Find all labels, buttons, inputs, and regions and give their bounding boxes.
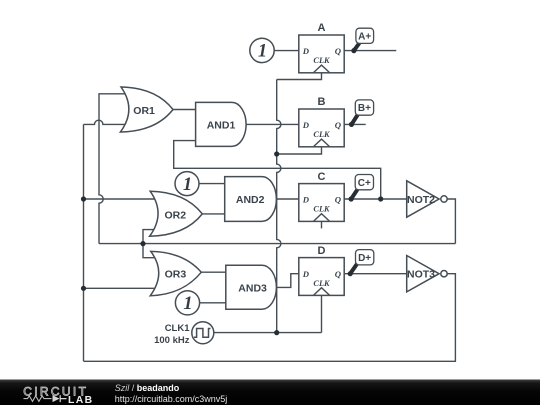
flag A+ tail <box>354 42 361 51</box>
svg-text:CLK: CLK <box>313 130 330 139</box>
svg-text:Q: Q <box>335 194 342 204</box>
wire AND2 output to C D-input <box>276 198 299 200</box>
svg-text:http://circuitlab.com/c3wnv5j: http://circuitlab.com/c3wnv5j <box>115 394 228 404</box>
wire NOT3 output loop right down and along bottom <box>84 274 456 362</box>
flip-flop D box <box>299 258 344 296</box>
node junction C flag <box>349 196 354 201</box>
svg-text:OR3: OR3 <box>165 269 187 281</box>
wire node1 to AND2 top input <box>199 183 225 185</box>
svg-text:A: A <box>318 22 326 34</box>
node 1 bubble at AND3 input <box>175 291 199 315</box>
logo diode <box>53 395 60 402</box>
wire NOT2 feedback horizontal <box>99 243 455 245</box>
svg-text:C+: C+ <box>358 178 371 189</box>
svg-text:CLK1: CLK1 <box>165 323 191 334</box>
flag A+ box <box>356 28 374 43</box>
svg-text:C: C <box>318 171 326 183</box>
svg-text:CLK: CLK <box>313 56 330 65</box>
svg-text:AND3: AND3 <box>238 283 267 295</box>
wire left vertical feedback line <box>83 124 85 361</box>
node 1 bubble at A input <box>250 38 274 62</box>
clock edge triangle A <box>313 65 329 73</box>
svg-text:LAB: LAB <box>68 395 94 405</box>
wire D Q-output to NOT3 input <box>344 273 407 275</box>
flip-flop A box <box>299 35 344 73</box>
svg-text:D: D <box>318 245 326 257</box>
flip-flop B box <box>299 109 344 147</box>
svg-text:AND1: AND1 <box>207 120 236 132</box>
node junction OR2 top tap <box>81 196 86 201</box>
svg-text:D+: D+ <box>358 253 371 264</box>
wire node1 to AND3 lower input <box>200 302 226 304</box>
wire AND1 output to B D-input <box>246 123 299 125</box>
wire OR2 output to AND2 lower input <box>202 213 224 215</box>
or-gate OR3 <box>150 251 201 295</box>
clock edge triangle D <box>313 288 329 296</box>
svg-text:D: D <box>302 269 310 279</box>
clock waveform glyph in CLK1 <box>194 329 211 338</box>
svg-text:CLK: CLK <box>313 279 330 288</box>
or-gate OR1 <box>120 87 173 132</box>
wire D CLK down <box>321 295 323 332</box>
wire C Q feedback to AND1 lower input <box>174 141 381 199</box>
svg-text:D: D <box>302 46 310 56</box>
svg-text:1: 1 <box>258 42 267 62</box>
wire NOT2 output loop right and down <box>447 199 455 244</box>
wire A CLK to bus top <box>277 73 322 80</box>
node junction C feedback <box>378 196 383 201</box>
node junction D flag <box>348 271 353 276</box>
svg-text:B+: B+ <box>358 103 371 114</box>
node junction NOT2 loop taps <box>140 241 145 246</box>
not-gate NOT3 triangle <box>407 256 439 292</box>
logo resistor zigzag <box>24 396 52 402</box>
node junction B flag <box>349 122 354 127</box>
node junction A flag <box>351 48 356 53</box>
svg-text:B: B <box>318 96 326 108</box>
flag C+ tail <box>351 188 358 199</box>
not-gate NOT2 bubble <box>441 196 447 202</box>
wire B Q-output <box>344 123 366 125</box>
svg-text:CLK: CLK <box>313 204 330 213</box>
wire OR1 output to AND1 top input <box>173 109 196 111</box>
wire clock bus vertical with hops <box>277 80 281 333</box>
node junction OR3 bottom tap <box>81 286 86 291</box>
wire OR1 lower input with hop over vertical line <box>84 120 129 124</box>
and-gate AND3 <box>226 265 277 309</box>
flag B+ box <box>355 100 373 115</box>
flag C+ box <box>355 175 373 190</box>
flag D+ box <box>356 250 374 265</box>
node 1 bubble at AND2 input <box>175 172 199 196</box>
node junction bus B-CLK <box>274 151 279 156</box>
or-gate OR2 <box>150 191 203 236</box>
svg-text:1: 1 <box>183 175 192 195</box>
wire AND3 output jog to D D-input <box>276 274 299 288</box>
svg-text:AND2: AND2 <box>236 194 265 206</box>
wire vertical to OR1 top input (hop at y199) <box>99 94 128 244</box>
svg-text:NOT3: NOT3 <box>407 269 435 281</box>
clock source CLK1 circle <box>192 322 214 344</box>
and-gate AND1 <box>196 102 246 146</box>
svg-text:Q: Q <box>335 46 342 56</box>
wire C Q-output to NOT2 input <box>344 198 407 200</box>
wire OR3 lower input tap <box>84 287 156 289</box>
svg-text:1: 1 <box>183 294 192 314</box>
svg-text:D: D <box>302 194 310 204</box>
svg-text:D: D <box>302 120 310 130</box>
svg-text:OR2: OR2 <box>165 210 187 222</box>
wire C CLK stub <box>321 221 323 228</box>
not-gate NOT2 triangle <box>407 181 439 217</box>
svg-text:Q: Q <box>335 269 342 279</box>
wire OR2 lower input tap <box>143 230 155 244</box>
svg-text:NOT2: NOT2 <box>407 194 435 206</box>
node junction bus CLK1 <box>274 330 279 335</box>
flag B+ tail <box>352 114 359 125</box>
flag D+ tail <box>350 263 357 273</box>
wire B CLK to bus <box>277 147 322 154</box>
flip-flop C box <box>299 184 344 222</box>
wire A D-input <box>274 50 299 52</box>
svg-text:Q: Q <box>335 120 342 130</box>
svg-text:100 kHz: 100 kHz <box>154 335 190 346</box>
clock edge triangle C <box>313 214 329 222</box>
svg-text:OR1: OR1 <box>133 105 155 117</box>
wire OR3 upper input tap <box>143 244 155 258</box>
svg-text:Szil / beadando: Szil / beadando <box>115 383 180 393</box>
wire OR2 upper input tap <box>84 198 155 200</box>
svg-text:A+: A+ <box>358 31 371 42</box>
wire A Q-output <box>344 50 396 52</box>
wire CLK1 output <box>214 332 322 334</box>
and-gate AND2 <box>225 177 277 222</box>
not-gate NOT3 bubble <box>441 271 447 277</box>
wire OR3 output to AND3 top input <box>201 271 226 273</box>
clock edge triangle B <box>313 139 329 147</box>
